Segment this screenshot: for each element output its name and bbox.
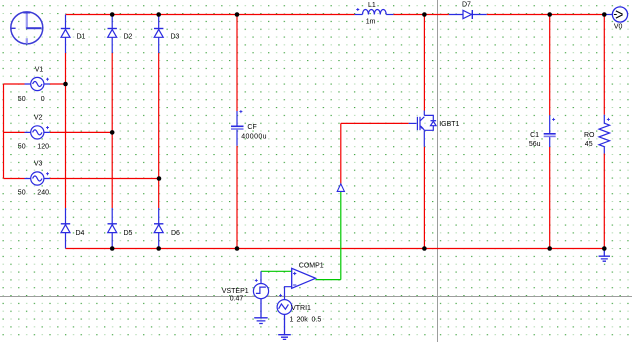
svg-text:V0: V0 — [614, 23, 623, 30]
diode D5 — [108, 208, 117, 248]
svg-text:D2: D2 — [124, 34, 133, 41]
svg-text:45: 45 — [585, 141, 593, 148]
svg-text:D7: D7 — [462, 2, 471, 9]
svg-text:50: 50 — [18, 144, 26, 151]
wire V1 row — [4, 83, 66, 85]
wire COMP1 output green — [316, 279, 341, 281]
svg-text:D5: D5 — [124, 230, 133, 237]
wire IGBT gate horizontal — [341, 122, 409, 124]
wire VTRI1 to minus input — [285, 287, 292, 300]
wire gate drive vertical red — [340, 123, 342, 183]
wire phase column 2 — [111, 53, 113, 208]
source VSTEP1 — [253, 279, 268, 299]
voltmeter V0 — [606, 7, 628, 22]
svg-text:V2: V2 — [34, 114, 43, 121]
signal arrow on gate wire — [337, 184, 344, 192]
ground below VSTEP1 — [254, 299, 268, 324]
svg-text:50: 50 — [18, 96, 26, 103]
svg-text:0.5: 0.5 — [312, 316, 322, 323]
svg-text:V1: V1 — [35, 66, 44, 73]
svg-text:1: 1 — [290, 316, 294, 323]
svg-text:D6: D6 — [171, 230, 180, 237]
op-amp comparator COMP1 — [292, 268, 316, 288]
svg-text:D3: D3 — [171, 34, 180, 41]
node dots top bus — [110, 12, 607, 17]
ground below VTRI1 — [278, 314, 291, 339]
svg-text:40000u: 40000u — [241, 133, 267, 140]
diode D2 — [108, 15, 117, 54]
svg-text:20k: 20k — [297, 316, 309, 323]
wire C1 column — [549, 15, 551, 249]
diode D4 — [61, 208, 70, 248]
wire PWM vertical green — [340, 192, 342, 280]
svg-text:COMP1: COMP1 — [299, 263, 324, 270]
wire bottom negative bus — [66, 248, 605, 250]
wire top positive bus — [66, 14, 606, 16]
diode D1 — [61, 15, 70, 54]
svg-text:120: 120 — [37, 144, 49, 151]
svg-text:CF: CF — [247, 124, 256, 131]
svg-text:D4: D4 — [76, 230, 85, 237]
svg-text:V3: V3 — [34, 161, 43, 168]
svg-text:1m: 1m — [366, 18, 376, 25]
svg-text:50: 50 — [18, 189, 26, 196]
wire IGBT collector-emitter column — [423, 15, 425, 249]
source V2 — [25, 126, 50, 139]
wire V3 row — [4, 178, 159, 180]
capacitor C1 — [544, 115, 556, 147]
wire CF column — [236, 15, 238, 249]
svg-text:L1: L1 — [368, 2, 376, 9]
node dots phase taps — [63, 82, 161, 181]
transistor IGBT1 — [409, 111, 436, 147]
svg-text:VSTEP1: VSTEP1 — [222, 288, 249, 295]
svg-text:C1: C1 — [530, 132, 539, 139]
wire V2 row — [4, 131, 113, 133]
svg-text:56u: 56u — [529, 141, 541, 148]
wire left neutral vertical — [3, 84, 5, 179]
source VTRI1 — [277, 294, 292, 315]
node dots bottom bus — [110, 246, 607, 251]
svg-text:RO: RO — [584, 132, 595, 139]
diode D6 — [154, 208, 163, 248]
wire phase column 1 — [65, 53, 67, 208]
clock icon — [11, 12, 43, 44]
wire phase column 3 — [158, 53, 160, 208]
wire RO column — [603, 15, 605, 249]
capacitor CF — [231, 110, 244, 146]
svg-text:D1: D1 — [77, 34, 86, 41]
source V3 — [25, 172, 50, 185]
svg-text:VTRI1: VTRI1 — [291, 305, 311, 312]
svg-text:240: 240 — [37, 189, 49, 196]
resistor RO — [599, 115, 610, 154]
wire COMP1 plus input green — [261, 270, 292, 272]
ground below RO — [599, 249, 610, 262]
source V1 — [25, 77, 50, 90]
svg-text:IGBT1: IGBT1 — [439, 121, 459, 128]
diode D3 — [154, 15, 163, 54]
inductor L1 — [355, 8, 394, 15]
svg-text:0: 0 — [41, 96, 45, 103]
diode D7 — [449, 10, 487, 19]
wire VSTEP1 top lead — [260, 271, 262, 283]
svg-text:0.47: 0.47 — [230, 296, 244, 303]
